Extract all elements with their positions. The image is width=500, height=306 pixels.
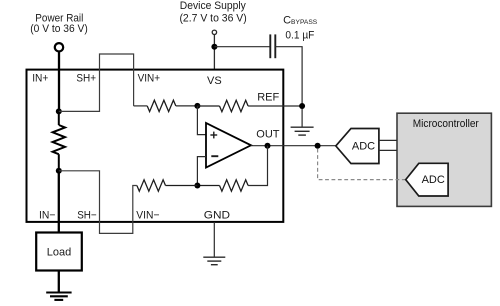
resistor: feedback R (bottom-right) [197, 180, 248, 191]
svg-text:GND: GND [204, 209, 230, 221]
label: Device Supply [179, 0, 246, 24]
resistor: internal shunt (vertical, thick) [53, 111, 65, 170]
wire: VIN+ lead into input resistor [134, 105, 148, 107]
svg-text:IN+: IN+ [32, 73, 48, 85]
node: OUT feedback junction [265, 143, 271, 149]
svg-text:VS: VS [207, 75, 222, 87]
node: supply junction dot [211, 44, 217, 50]
svg-text:Load: Load [47, 247, 71, 259]
wire: SH- sense jumper under the bottom to VIN- [59, 171, 137, 234]
ground: power ground under Load (thick) [46, 293, 71, 300]
device supply terminal (small open circle) [212, 30, 216, 34]
ground: REF ground symbol [291, 127, 314, 135]
svg-text:(2.7 V to 36 V): (2.7 V to 36 V) [179, 13, 246, 25]
resistor: feedback R to REF (top-right) [197, 100, 248, 111]
wire: top junction down to op-amp + input [197, 106, 206, 135]
wire: SH+ sense jumper over the top to VIN+ [59, 54, 134, 111]
op-amp - input sign [211, 155, 218, 157]
wire: power rail to IN+ junction (thick) [58, 52, 60, 112]
svg-text:VIN−: VIN− [136, 210, 159, 222]
op-amp U1 amplifier triangle [206, 123, 251, 168]
resistor: input R to -IN (bottom-left) [137, 180, 198, 191]
svg-text:(0 V to 36 V): (0 V to 36 V) [30, 23, 88, 35]
wire: shunt bottom to IN- pin and Load (thick) [58, 171, 60, 233]
wire: REF resistor to REF node [248, 105, 302, 107]
node: -input / feedback bottom junction [194, 183, 200, 189]
node: shunt bottom junction [56, 168, 62, 174]
svg-text:IN−: IN− [39, 210, 55, 222]
svg-text:SH+: SH+ [76, 73, 96, 85]
wire: dashed link OUT to second ADC [318, 149, 406, 180]
node: shunt top junction [56, 108, 62, 114]
resistor: input R to +IN (top-left) [147, 100, 176, 111]
ADC 1 (external) [336, 129, 379, 164]
svg-text:REF: REF [257, 92, 279, 104]
svg-text:OUT: OUT [256, 129, 280, 141]
Microcontroller block [397, 113, 491, 206]
ground: GND pin ground symbol [203, 257, 225, 265]
ADC 2 (inside microcontroller) [406, 163, 448, 196]
wire: capacitor to REF/ground column [275, 47, 302, 128]
label: Power Rail [30, 13, 88, 36]
node: REF junction dot [299, 103, 305, 109]
svg-text:Device Supply: Device Supply [180, 0, 246, 12]
svg-text:ADC: ADC [352, 141, 375, 153]
wire: supply junction to bypass capacitor [214, 46, 270, 48]
svg-text:Microcontroller: Microcontroller [413, 118, 479, 130]
wire: Load to ground (thick) [58, 271, 60, 293]
wire: ADC1 to microcontroller bus lines [378, 140, 397, 150]
svg-text:SH−: SH− [77, 210, 97, 222]
svg-text:VIN+: VIN+ [138, 73, 161, 85]
wire: op-amp - input to bottom junction [197, 157, 206, 186]
Load block [36, 233, 82, 271]
wire: GND pin down [213, 222, 215, 257]
wire: resistor to +IN node [176, 105, 198, 107]
node: OUT to ADC junction dot [315, 143, 321, 149]
wire: OUT down to feedback resistor [248, 146, 267, 186]
svg-text:ADC: ADC [422, 174, 445, 186]
IC body box U1 [27, 70, 284, 222]
op-amp + input sign [210, 132, 217, 139]
wire: op-amp output to OUT pin and ADC [251, 145, 336, 147]
node: +input / feedback top junction [194, 103, 200, 109]
label: C_BYPASS value [283, 15, 318, 42]
wire: device supply to VS pin [213, 35, 215, 71]
capacitor C_BYPASS plates [270, 34, 275, 58]
power rail terminal (open circle) [55, 43, 63, 51]
svg-text:0.1 µF: 0.1 µF [285, 30, 314, 42]
